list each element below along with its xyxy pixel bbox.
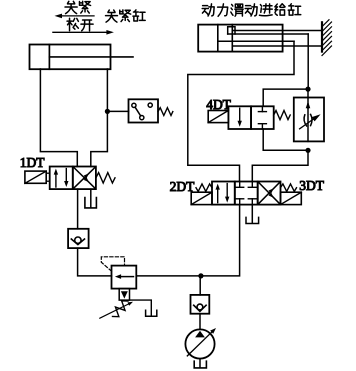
pressure switch contact lever xyxy=(135,107,141,116)
solenoid 4DT box xyxy=(208,111,228,123)
valve 4DT left square down arrow xyxy=(238,108,242,127)
wire clamp cylinder right port to 1DT A port xyxy=(91,69,108,167)
label 动力滑动进给缸 (power slide feed cylinder) text xyxy=(202,4,301,17)
tank under 4/3 valve xyxy=(246,217,259,223)
feed cylinder piston left face xyxy=(217,25,219,52)
valve 1DT left square down arrow xyxy=(64,169,68,187)
feed cylinder piston port notch xyxy=(228,27,235,34)
valve 2DT-3DT right position square xyxy=(258,182,281,205)
valve 1DT left position square xyxy=(50,167,73,190)
valve 4DT blocked port marks xyxy=(258,106,266,129)
solenoid 3DT box xyxy=(281,192,302,204)
wire junction to 4/3 valve P port xyxy=(201,205,240,276)
junction below throttle xyxy=(305,148,310,153)
wire clamp cylinder left port to 1DT P port xyxy=(40,69,77,167)
throttle flow direction arrow xyxy=(306,101,311,108)
check valve (upper) box xyxy=(68,229,89,248)
wire junction down to check valve xyxy=(199,276,201,295)
valve left square down arrow xyxy=(225,184,229,203)
tank under pump xyxy=(194,361,206,368)
svg-text:3DT: 3DT xyxy=(299,178,324,193)
reducing valve body xyxy=(112,266,137,289)
clamp cylinder rod xyxy=(49,56,133,58)
valve 1DT right position square xyxy=(73,167,96,190)
throttle valve enclosure box xyxy=(294,98,324,142)
feed cylinder rod outer bottom xyxy=(232,45,322,47)
reducing valve drain poppet triangle xyxy=(121,291,128,298)
pump variable displacement arrow xyxy=(187,328,216,356)
wire 1DT T port down to check valve xyxy=(77,189,79,229)
wire check valve to reducing valve xyxy=(78,248,112,276)
pressure switch spring xyxy=(158,108,173,116)
pump outlet triangle xyxy=(195,331,205,338)
throttle restriction arcs xyxy=(304,114,312,126)
tank for reducing valve drain xyxy=(146,310,157,316)
wall anchor with hatching xyxy=(322,20,332,56)
tank under 1DT xyxy=(85,198,97,208)
valve 4DT return spring xyxy=(274,111,291,120)
pressure switch contact circle top-left xyxy=(132,103,136,107)
valve 1DT left square up arrow xyxy=(54,169,58,187)
wire throttle to top junction xyxy=(307,89,309,97)
valve right square crossed arrows xyxy=(259,182,280,204)
valve 3DT spring xyxy=(281,184,297,192)
junction above throttle xyxy=(305,87,310,92)
label 夹紧缸 (clamp cylinder) text xyxy=(106,10,146,22)
check valve (lower) ball xyxy=(197,304,203,310)
label 1DT xyxy=(20,155,45,170)
svg-text:1DT: 1DT xyxy=(20,155,45,170)
wire 4/3 B port up to throttle branch xyxy=(252,150,308,181)
pressure switch contact circle top-right xyxy=(148,103,152,107)
pump circle xyxy=(185,329,214,358)
svg-text:2DT: 2DT xyxy=(170,179,195,194)
check valve (upper) ball xyxy=(75,237,81,243)
feed cylinder rod outer top xyxy=(232,30,322,32)
label 4DT xyxy=(206,97,231,112)
solenoid 1DT diagonal xyxy=(25,171,46,183)
clamp cylinder body xyxy=(30,45,111,70)
feed cylinder piston right face xyxy=(231,25,233,52)
junction to pressure switch xyxy=(105,109,110,114)
valve 4DT right position square xyxy=(251,106,274,129)
wire 4/3 valve T port to tank xyxy=(251,205,253,223)
wire reducing valve to pump junction xyxy=(136,275,200,277)
valve 4DT left position square xyxy=(228,106,251,129)
wire 4/3 A port to feed cylinder rod side xyxy=(188,41,294,181)
label 松开 (release) text xyxy=(67,18,93,31)
wire 1DT B port to tank xyxy=(90,189,92,207)
solenoid 1DT box xyxy=(25,171,50,183)
wire to pressure switch xyxy=(107,110,128,112)
label 3DT xyxy=(299,178,324,193)
feed cylinder body xyxy=(198,25,282,52)
reducing valve adjustable spring xyxy=(100,301,133,318)
check valve (lower) box xyxy=(191,295,210,314)
wire pump to tank xyxy=(199,359,201,368)
clamp cylinder piston xyxy=(48,45,50,70)
solenoid 2DT box xyxy=(191,192,212,204)
svg-text:4DT: 4DT xyxy=(206,97,231,112)
junction pump line xyxy=(198,273,203,278)
feed cylinder rod inner top line xyxy=(228,33,309,35)
throttle flow line xyxy=(307,98,309,142)
reducing valve flow arrow xyxy=(115,274,134,279)
wire 4DT top port link xyxy=(263,89,308,106)
pressure switch body xyxy=(129,99,159,122)
solenoid 4DT diagonal xyxy=(208,111,228,123)
label 夹紧 (clamp) text xyxy=(65,1,91,13)
wire 4DT bottom port link xyxy=(263,129,308,150)
valve left square up arrow xyxy=(216,184,220,203)
arrow right (release direction) xyxy=(53,30,114,35)
pressure switch contact circle bottom xyxy=(140,116,144,120)
valve centre blocked port marks xyxy=(236,182,257,205)
solenoid 3DT diagonal xyxy=(281,192,302,204)
feed cylinder rod inner bottom line xyxy=(218,40,294,42)
valve 1DT crossed position xyxy=(74,167,96,188)
reducing valve drain poppet box xyxy=(119,289,129,301)
label 2DT xyxy=(170,179,195,194)
check valve (lower) seat xyxy=(194,305,206,311)
solenoid 2DT diagonal xyxy=(191,192,212,204)
reducing valve drain line xyxy=(130,300,152,316)
wire check valve to pump xyxy=(199,314,201,330)
valve 1DT return spring xyxy=(96,173,115,183)
throttle adjustment arrow xyxy=(300,114,321,129)
reducing valve pilot line (dashed) xyxy=(101,257,124,271)
wire top junction to feed cylinder centre passage xyxy=(307,34,309,89)
valve 2DT spring xyxy=(196,184,212,192)
arrow left (clamp direction) xyxy=(55,14,95,19)
valve 2DT-3DT centre position square xyxy=(235,182,258,205)
check valve (upper) seat xyxy=(71,239,84,245)
valve 2DT-3DT left position square xyxy=(212,182,235,205)
